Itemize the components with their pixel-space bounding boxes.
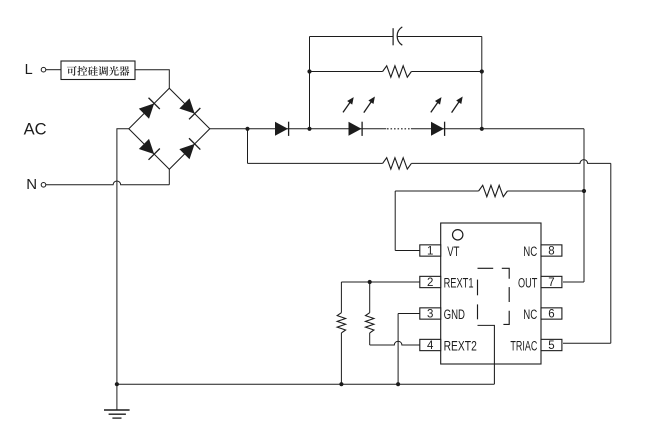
- svg-text:6: 6: [548, 309, 554, 321]
- svg-text:8: 8: [548, 246, 554, 258]
- svg-text:REXT1: REXT1: [444, 276, 474, 291]
- svg-text:5: 5: [548, 340, 554, 352]
- svg-text:N: N: [26, 176, 37, 193]
- svg-text:2: 2: [427, 277, 433, 289]
- svg-text:REXT2: REXT2: [444, 339, 477, 354]
- svg-text:VT: VT: [447, 244, 459, 259]
- svg-text:AC: AC: [24, 121, 47, 139]
- svg-text:TRIAC: TRIAC: [510, 339, 537, 354]
- svg-text:OUT: OUT: [518, 276, 537, 291]
- svg-text:GND: GND: [444, 307, 466, 322]
- svg-text:NC: NC: [523, 307, 537, 322]
- svg-text:1: 1: [427, 246, 433, 258]
- svg-text:NC: NC: [523, 244, 537, 259]
- svg-text:L: L: [25, 62, 33, 78]
- svg-text:4: 4: [427, 340, 434, 352]
- svg-text:3: 3: [427, 309, 433, 321]
- svg-text:7: 7: [548, 277, 554, 289]
